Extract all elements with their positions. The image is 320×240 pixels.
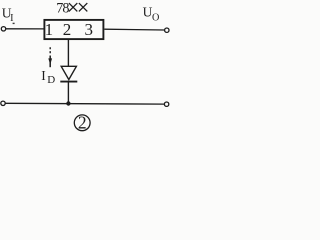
node UI input terminal [1,27,5,31]
node UO output terminal [165,28,169,32]
node ground-left terminal [1,101,5,105]
wire diode cathode to ground rail [67,82,69,104]
wire pin 2 down to diode anode [67,40,69,67]
figure number circle [74,115,90,131]
svg-text:2: 2 [63,20,72,39]
current ID dashed arrow [49,47,51,54]
diode VD cathode bar [60,81,77,83]
wire bottom rail [5,102,164,105]
svg-text:D: D [47,74,55,86]
svg-text:78: 78 [56,1,69,17]
svg-text:1: 1 [45,20,54,39]
svg-text:I: I [41,68,46,83]
diode VD triangle [61,66,76,79]
regulator U1 78xx body [44,20,103,39]
current ID arrow shaft [49,56,51,68]
wire input to regulator pin 1 [6,28,44,30]
speck below UI subscript [13,23,15,24]
node ground-right terminal [164,102,168,106]
junction diode to rail [66,101,70,105]
svg-text:I: I [10,13,14,24]
svg-text:3: 3 [84,20,93,39]
label 78xx multiplication signs [69,3,87,11]
current ID arrowhead [48,58,52,64]
wire pin 3 to output terminal [104,28,164,31]
svg-text:O: O [152,13,159,24]
